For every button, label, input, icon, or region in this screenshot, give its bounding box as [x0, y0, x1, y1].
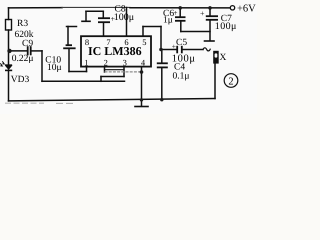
- svg-text:10μ: 10μ: [47, 63, 62, 73]
- svg-text:0.1μ: 0.1μ: [173, 71, 190, 81]
- svg-text:+: +: [173, 9, 178, 18]
- svg-text:R3: R3: [17, 19, 28, 29]
- svg-text:5: 5: [142, 37, 146, 47]
- svg-text:100μ: 100μ: [215, 21, 237, 32]
- svg-text:X: X: [220, 53, 227, 63]
- svg-text:+: +: [111, 15, 116, 24]
- svg-text:2: 2: [228, 76, 233, 87]
- svg-text:IC LM386: IC LM386: [88, 44, 142, 58]
- svg-text:1μ: 1μ: [163, 16, 173, 26]
- svg-text:1: 1: [84, 58, 88, 68]
- svg-text:2: 2: [104, 58, 108, 68]
- svg-text:0.22μ: 0.22μ: [12, 54, 34, 64]
- svg-text:C9: C9: [22, 39, 33, 49]
- svg-text:+: +: [172, 42, 176, 51]
- svg-text:VD3: VD3: [11, 75, 30, 85]
- svg-text:+6V: +6V: [237, 4, 256, 15]
- svg-text:3: 3: [123, 58, 127, 68]
- svg-text:C5: C5: [176, 38, 187, 48]
- svg-text:100μ: 100μ: [114, 12, 134, 23]
- svg-text:+: +: [200, 9, 205, 18]
